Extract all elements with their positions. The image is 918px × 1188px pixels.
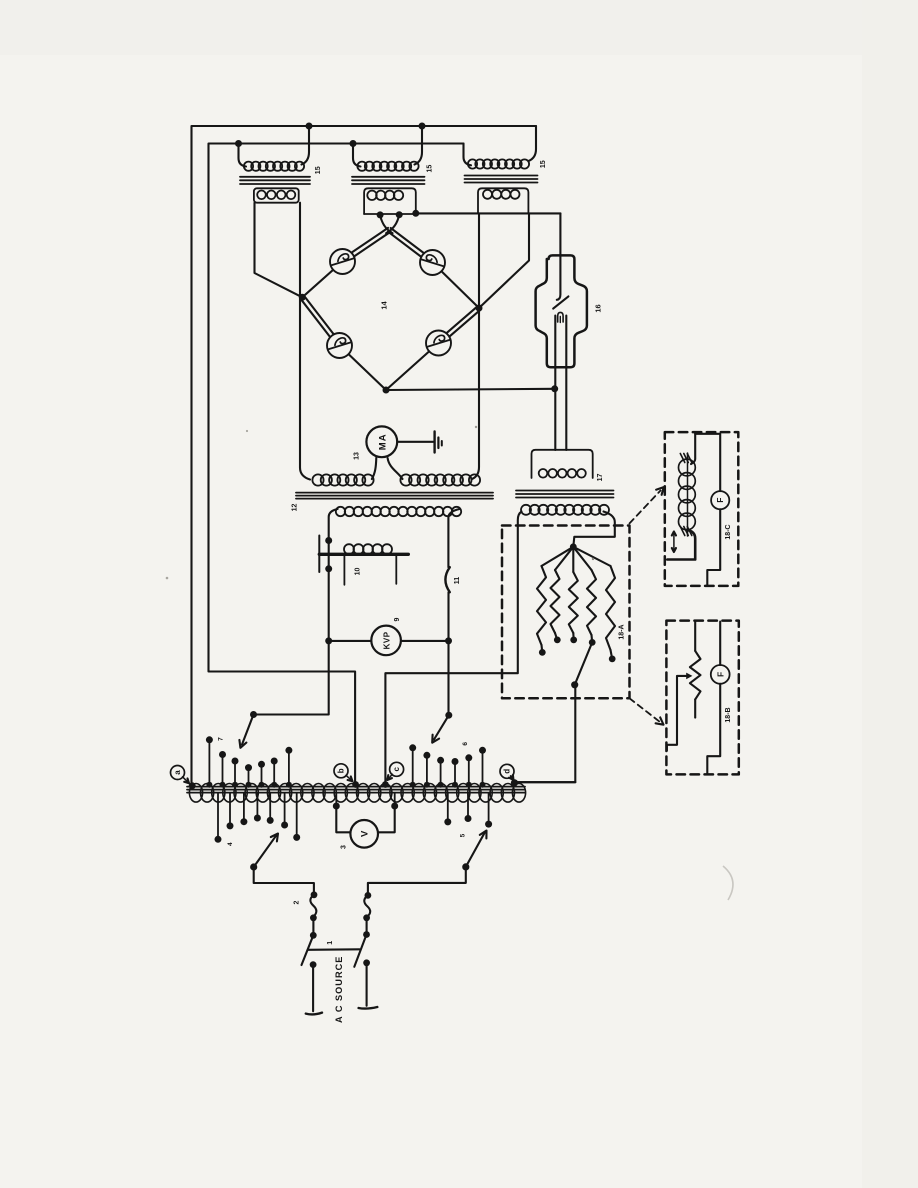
- svg-text:18-A: 18-A: [619, 624, 626, 639]
- svg-text:17: 17: [597, 474, 604, 482]
- svg-text:15: 15: [540, 160, 547, 168]
- svg-text:V: V: [360, 830, 371, 837]
- svg-text:16: 16: [594, 304, 603, 312]
- svg-text:c: c: [392, 767, 401, 772]
- svg-text:b: b: [337, 768, 346, 773]
- svg-text:F: F: [715, 672, 725, 677]
- svg-text:12: 12: [292, 504, 299, 512]
- svg-text:5: 5: [460, 833, 467, 837]
- svg-text:F: F: [715, 498, 725, 503]
- svg-text:4: 4: [227, 842, 234, 846]
- svg-text:d: d: [503, 769, 512, 774]
- svg-text:MA: MA: [378, 433, 389, 450]
- svg-text:14: 14: [380, 301, 389, 310]
- svg-text:7: 7: [218, 737, 225, 741]
- svg-text:1: 1: [327, 941, 334, 945]
- svg-text:15: 15: [315, 166, 322, 174]
- svg-text:A C SOURCE: A C SOURCE: [334, 956, 344, 1023]
- svg-text:3: 3: [341, 845, 348, 849]
- svg-text:18-B: 18-B: [725, 707, 732, 722]
- svg-text:2: 2: [294, 900, 301, 904]
- svg-text:10: 10: [355, 568, 362, 576]
- svg-text:11: 11: [454, 577, 461, 585]
- svg-text:13: 13: [354, 452, 361, 460]
- svg-text:18-C: 18-C: [725, 524, 732, 539]
- svg-text:6: 6: [462, 742, 469, 746]
- svg-text:KVP: KVP: [383, 631, 392, 649]
- svg-text:15: 15: [426, 165, 433, 173]
- svg-text:9: 9: [394, 617, 401, 621]
- svg-text:a: a: [173, 770, 182, 775]
